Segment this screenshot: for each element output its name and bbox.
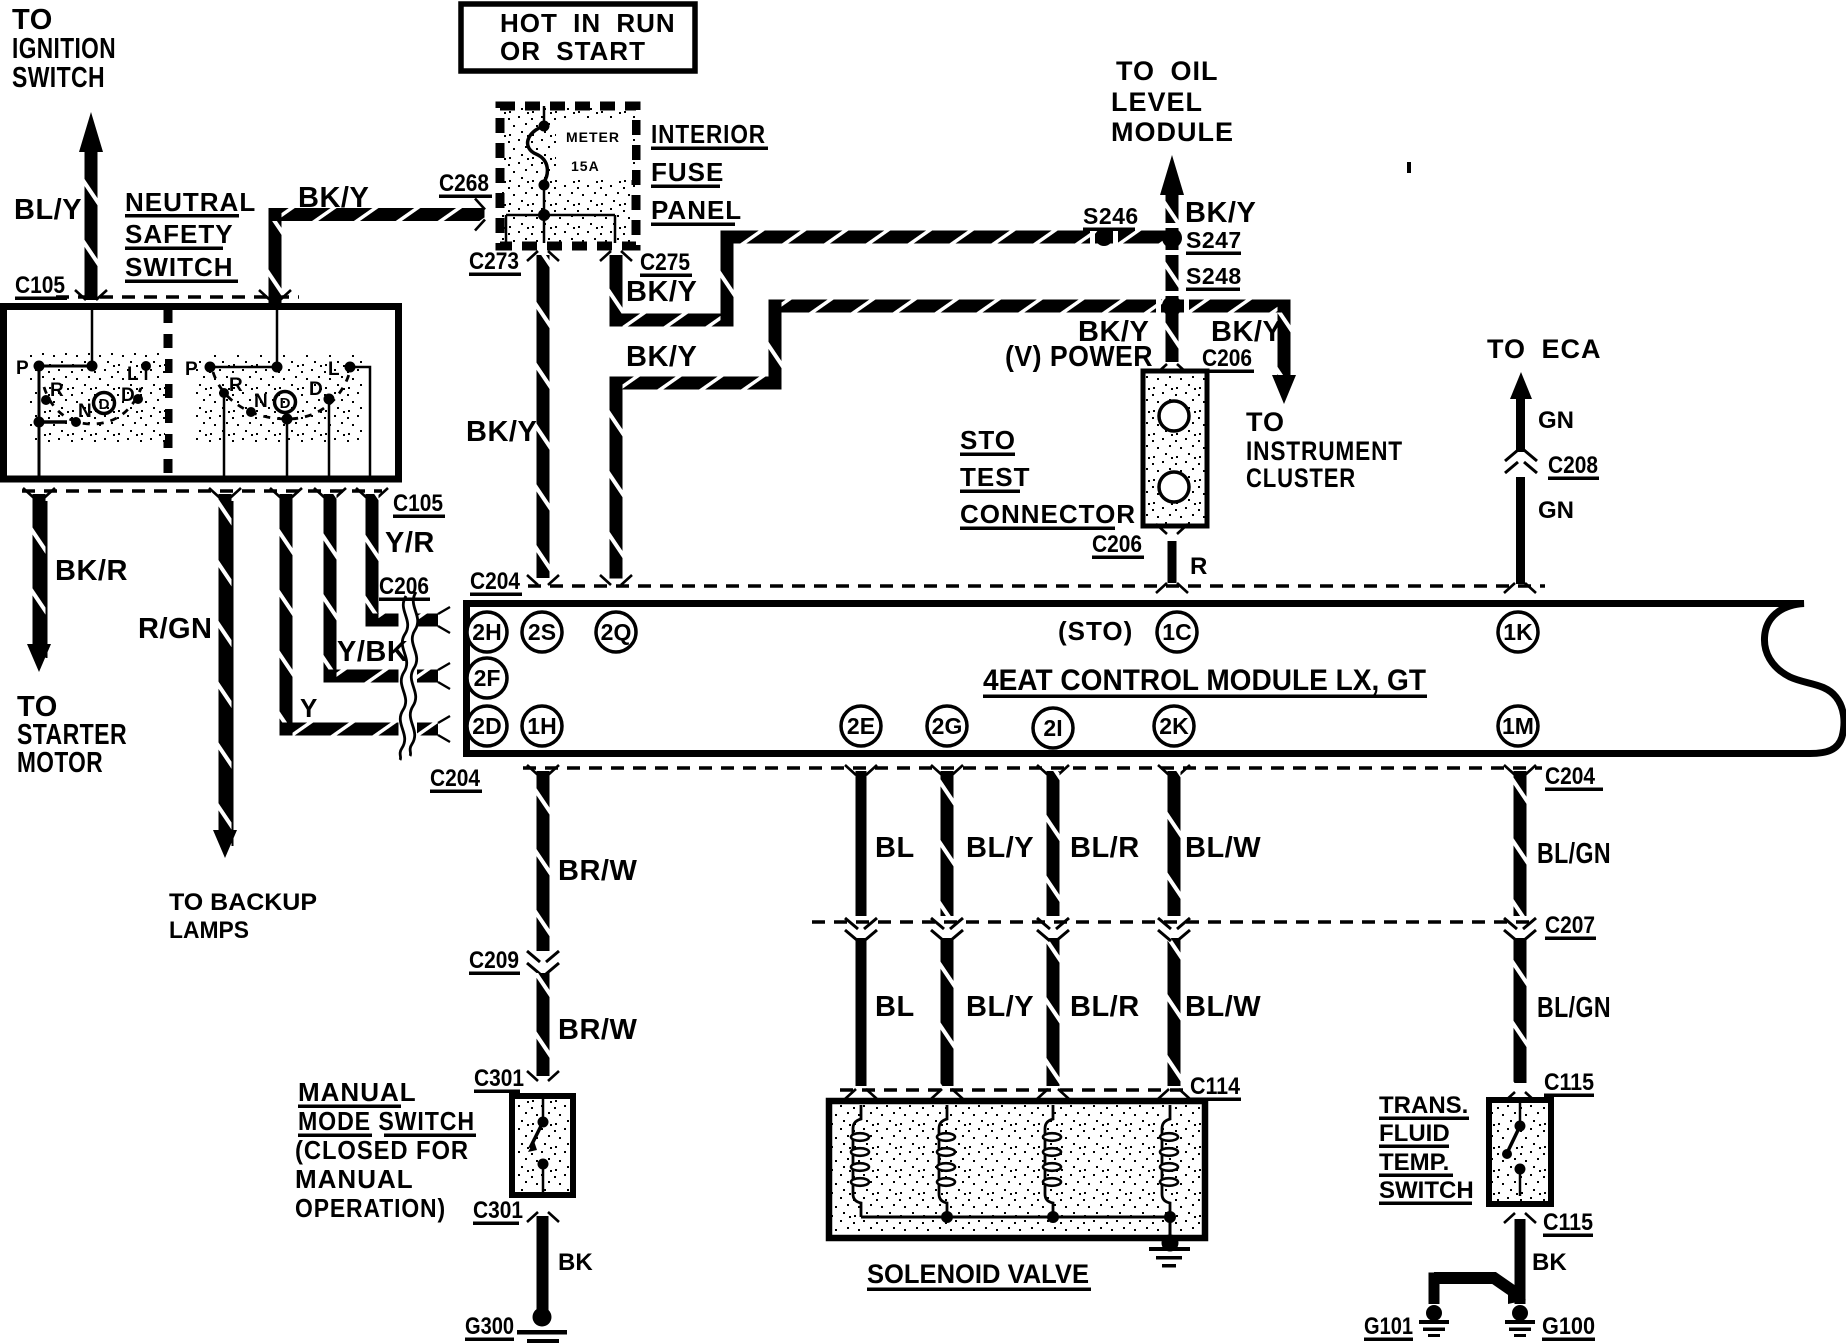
wire BK/R [33, 494, 46, 645]
left half feed line [91, 307, 94, 366]
svg-text:2H: 2H [472, 619, 501, 645]
solenoid common bus [861, 1216, 1170, 1219]
wire BK/Y vertical through S247 S248 [1166, 192, 1179, 362]
wire BL/R lower [1047, 938, 1060, 1086]
arrowhead up to oil level module [1160, 155, 1184, 195]
connector funnel C204 at 2K [1158, 765, 1190, 775]
svg-text:BR/W: BR/W [558, 1014, 637, 1046]
svg-text:2F: 2F [474, 665, 501, 691]
stray tick mark [1407, 162, 1411, 173]
solenoid coil 4 [1162, 1105, 1170, 1217]
connector funnel C204 at 1H [527, 765, 559, 775]
svg-text:S248: S248 [1186, 263, 1242, 289]
module pin 2D [467, 706, 507, 746]
right L leg [350, 367, 370, 479]
svg-text:C114: C114 [1190, 1073, 1241, 1100]
trans switch lower pin [1515, 1164, 1526, 1175]
svg-text:P: P [16, 358, 29, 379]
left contact N [71, 417, 81, 427]
module pin 2E [841, 706, 881, 746]
wire Y/BK stub to 2F [417, 670, 438, 683]
module pin 2Q [596, 612, 636, 652]
right R leg [223, 395, 226, 479]
module pin 1H [522, 706, 562, 746]
wire BK/Y to instrument cluster vertical [1278, 300, 1291, 380]
svg-text:2D: 2D [472, 713, 501, 739]
svg-text:C273: C273 [469, 248, 519, 275]
arrowhead up to ECA [1510, 372, 1532, 399]
svg-text:SWITCH: SWITCH [125, 252, 234, 282]
svg-text:D: D [280, 395, 291, 412]
connector funnel C301 upper [527, 1071, 559, 1081]
wire BL/GN lower [1514, 938, 1527, 1083]
module pin 2G [927, 706, 967, 746]
svg-text:C301: C301 [473, 1197, 523, 1224]
STO pin hole lower [1159, 472, 1189, 502]
svg-text:2K: 2K [1159, 713, 1189, 739]
svg-text:C206: C206 [1092, 531, 1142, 558]
left rotor D circled [94, 393, 115, 414]
svg-text:TO: TO [12, 4, 53, 36]
svg-text:SWITCH: SWITCH [1379, 1177, 1474, 1204]
svg-text:BL/Y: BL/Y [966, 991, 1034, 1023]
right node junction [272, 362, 283, 373]
wire Y stub to 2D [417, 723, 438, 736]
svg-text:BL/W: BL/W [1185, 991, 1261, 1023]
left selector arc dashed [44, 387, 141, 424]
connector funnel C275 below fuse panel [600, 251, 632, 261]
svg-text:MODE SWITCH: MODE SWITCH [298, 1106, 475, 1136]
stipple patch left half [30, 350, 165, 442]
connector funnel C204 at 2E [845, 765, 877, 775]
connector funnel C204 at 1M [1504, 765, 1536, 775]
svg-text:METER: METER [566, 129, 620, 145]
svg-text:BR/W: BR/W [558, 855, 637, 887]
wire R/GN [219, 494, 232, 833]
wire BL upper [856, 771, 867, 916]
module pin 2H [467, 612, 507, 652]
svg-text:2E: 2E [847, 713, 875, 739]
svg-text:C204: C204 [470, 568, 521, 595]
svg-text:BK: BK [558, 1249, 593, 1276]
connector funnel C115 lower [1504, 1213, 1536, 1223]
connector funnel C204 at 2G [931, 765, 963, 775]
svg-text:C209: C209 [469, 947, 519, 974]
svg-text:SAFETY: SAFETY [125, 219, 234, 249]
svg-text:G101: G101 [1364, 1313, 1413, 1340]
wire BR/W upper [537, 771, 550, 951]
wire Y vertical [280, 494, 293, 736]
svg-text:INTERIOR: INTERIOR [651, 119, 766, 149]
svg-text:Y: Y [300, 693, 318, 723]
connector funnel C204 at 1K [1504, 583, 1536, 593]
connector funnel C301 lower [527, 1212, 559, 1222]
svg-text:R: R [229, 375, 243, 396]
svg-text:CONNECTOR: CONNECTOR [960, 499, 1136, 529]
splice S246 [1090, 229, 1095, 244]
svg-text:S246: S246 [1083, 203, 1139, 229]
connector funnel C105 at R/GN [209, 488, 241, 498]
manual mode switch box [512, 1096, 573, 1195]
svg-text:BK/Y: BK/Y [1185, 197, 1256, 229]
svg-text:FLUID: FLUID [1379, 1120, 1450, 1147]
connector line C204 top dashed [528, 584, 1545, 588]
connector funnel C114 at BL/W [1158, 1089, 1190, 1099]
svg-text:BK: BK [1532, 1249, 1567, 1276]
svg-text:2G: 2G [932, 713, 963, 739]
arrowhead down instrument cluster [1272, 375, 1296, 404]
left contact P [34, 361, 45, 372]
connector funnel C204 at 2S [527, 575, 559, 585]
svg-text:Y/BK: Y/BK [337, 636, 408, 668]
svg-text:C206: C206 [379, 573, 429, 600]
svg-text:BL/R: BL/R [1070, 991, 1140, 1023]
wire BL/GN upper [1514, 771, 1527, 916]
svg-text:STO: STO [960, 425, 1016, 455]
svg-text:S247: S247 [1186, 227, 1242, 253]
svg-text:C115: C115 [1544, 1069, 1594, 1096]
svg-text:TO BACKUP: TO BACKUP [169, 889, 317, 916]
svg-text:TO: TO [1246, 407, 1285, 437]
svg-text:BL/Y: BL/Y [14, 194, 82, 226]
svg-text:Y/R: Y/R [385, 527, 435, 559]
arrowhead down starter motor [27, 644, 51, 672]
wire BR/W lower [537, 973, 550, 1076]
svg-text:L: L [328, 359, 340, 380]
ground G300 [533, 1308, 552, 1327]
svg-text:BL/W: BL/W [1185, 832, 1261, 864]
connector C207 break at BL [845, 918, 877, 941]
bus junction dot 2 [941, 1211, 953, 1223]
manual switch lower pin [538, 1159, 549, 1170]
wire BK/Y vertical down to module 2Q [610, 377, 623, 579]
connector funnel C114 at BL/R [1037, 1089, 1069, 1099]
svg-text:MODULE: MODULE [1111, 117, 1234, 147]
wire BL/R upper [1047, 771, 1060, 916]
module pin 2F [467, 658, 507, 698]
svg-text:1H: 1H [527, 713, 556, 739]
connector line C105 bottom dashed [22, 489, 382, 493]
connector funnel C105 at BK/R [23, 488, 55, 498]
right D leg [328, 401, 331, 479]
connector C207 break at BL/GN [1504, 918, 1536, 941]
svg-text:C204: C204 [1545, 763, 1596, 790]
neutral safety switch box [4, 307, 399, 480]
connector line C204 bottom dashed [523, 766, 1542, 770]
svg-text:BK/Y: BK/Y [626, 276, 697, 308]
svg-text:R: R [1190, 553, 1207, 580]
STO test connector box [1143, 371, 1207, 526]
wire Y/BK horizontal [324, 670, 399, 683]
wire BK/Y S248 run horizontal [769, 300, 1291, 313]
connector funnel C105 at Y [270, 488, 302, 498]
bus junction dot 4 [1164, 1211, 1176, 1223]
connector funnel C105 at BK/Y [259, 290, 291, 300]
ground G100 [1512, 1305, 1528, 1321]
svg-text:BL: BL [875, 991, 915, 1023]
connector C206 wavy break chain [400, 596, 408, 760]
connector C208 break [1505, 450, 1537, 473]
svg-text:P: P [185, 359, 198, 380]
wire BK branch to G101 [1434, 1278, 1520, 1296]
svg-text:C105: C105 [15, 272, 65, 299]
bus junction dot 3 [1047, 1211, 1059, 1223]
left node junction [87, 361, 98, 372]
connector funnel C204 at 1C [1156, 583, 1188, 593]
svg-text:TO OIL: TO OIL [1116, 56, 1219, 86]
connector C209 break [527, 951, 559, 974]
4EAT control module box [467, 604, 1845, 754]
wire BK/Y riser S248 to 2Q feed [769, 300, 782, 390]
svg-text:BK/Y: BK/Y [298, 182, 369, 214]
svg-text:N: N [78, 401, 92, 422]
svg-text:C206: C206 [1202, 345, 1252, 372]
svg-text:BK/Y: BK/Y [1211, 316, 1282, 348]
connector line C207 dashed [812, 920, 1532, 924]
svg-text:C275: C275 [640, 249, 690, 276]
svg-text:R/GN: R/GN [138, 613, 213, 645]
manual switch upper pin [542, 1099, 545, 1117]
svg-text:OPERATION): OPERATION) [295, 1193, 446, 1223]
solenoid ground lead [1169, 1217, 1172, 1238]
svg-text:C301: C301 [474, 1065, 524, 1092]
svg-text:C204: C204 [430, 765, 481, 792]
connector funnel C114 at BL [845, 1089, 877, 1099]
svg-text:OR START: OR START [500, 36, 646, 66]
connector funnel C105 at BL/Y [75, 290, 107, 300]
svg-text:C207: C207 [1545, 912, 1595, 939]
svg-text:C105: C105 [393, 490, 443, 517]
wire BL/Y to ignition switch [85, 150, 98, 300]
svg-text:TEMP.: TEMP. [1379, 1149, 1449, 1176]
fuse METER 15A element [543, 106, 546, 122]
wire BK to G300 [537, 1216, 549, 1310]
svg-text:BK/Y: BK/Y [626, 341, 697, 373]
wire BK/Y C275 horizontal to riser [610, 314, 734, 327]
svg-text:TO ECA: TO ECA [1487, 334, 1602, 364]
wire GN lower [1516, 477, 1525, 584]
wire BK/Y from switch to C268 horizontal [269, 208, 485, 221]
box HOT IN RUN OR START [461, 4, 695, 71]
connector C207 break at BL/R [1037, 918, 1069, 941]
manual switch arm [530, 1122, 543, 1148]
connector line C105 top dashed [56, 295, 299, 299]
wire BL/W upper [1168, 771, 1181, 916]
svg-text:2S: 2S [528, 619, 556, 645]
svg-text:BL/GN: BL/GN [1537, 992, 1611, 1024]
svg-text:BL/GN: BL/GN [1537, 838, 1611, 870]
connector funnel C204 at 2I [1037, 765, 1069, 775]
connector C207 break at BL/W [1158, 918, 1190, 941]
arrowhead up ignition [79, 112, 103, 152]
svg-text:R: R [50, 380, 64, 401]
svg-text:D: D [309, 379, 323, 400]
svg-text:FUSE: FUSE [651, 157, 724, 187]
right center contact leg [282, 414, 293, 425]
left contact L [141, 361, 151, 371]
wire Y/R horizontal [366, 614, 399, 627]
connector funnel C115 upper [1504, 1092, 1536, 1102]
svg-text:SWITCH: SWITCH [12, 62, 105, 94]
svg-text:LAMPS: LAMPS [169, 917, 249, 944]
svg-text:C268: C268 [439, 170, 489, 197]
wire BL/Y lower [941, 938, 954, 1086]
svg-text:(CLOSED FOR: (CLOSED FOR [295, 1135, 469, 1165]
solenoid coil 1 [853, 1105, 861, 1217]
svg-text:D: D [99, 396, 110, 413]
svg-text:2Q: 2Q [601, 619, 632, 645]
svg-text:NEUTRAL: NEUTRAL [125, 187, 256, 217]
connector funnel C204 at 2Q [600, 575, 632, 585]
right selector arc dashed [213, 371, 350, 419]
svg-text:IGNITION: IGNITION [12, 33, 116, 65]
wire BK/Y riser up to top run [721, 231, 734, 327]
arrowhead down backup lamps [213, 830, 237, 858]
solenoid valve box [829, 1101, 1205, 1238]
right contact L [345, 362, 356, 373]
ground at solenoid valve [1162, 1235, 1179, 1252]
connector funnel C206 below STO [1156, 524, 1188, 534]
svg-text:BL/R: BL/R [1070, 832, 1140, 864]
svg-text:HOT IN RUN: HOT IN RUN [500, 8, 676, 38]
svg-text:(STO): (STO) [1058, 616, 1133, 646]
right contact R [219, 388, 229, 398]
svg-text:TRANS.: TRANS. [1379, 1092, 1468, 1119]
stipple patch right half [196, 355, 364, 445]
right half feed line [276, 307, 279, 367]
interior fuse panel box dashed [500, 106, 636, 246]
wire Y/BK vertical [324, 494, 337, 683]
connector line C114 dashed [840, 1088, 1185, 1092]
module pin 2I [1033, 708, 1073, 748]
wire BK/Y C273 vertical to module 2S [537, 255, 550, 578]
wire BL/W lower [1168, 938, 1181, 1086]
module pin 1C [1157, 612, 1197, 652]
module pin 2K [1154, 706, 1194, 746]
wire BL lower [856, 938, 867, 1086]
svg-text:INSTRUMENT: INSTRUMENT [1246, 436, 1403, 466]
trans switch arm [1508, 1126, 1520, 1151]
connector funnel C114 at BL/Y [931, 1089, 963, 1099]
module pin 1K [1498, 612, 1538, 652]
wire Y/R vertical [366, 494, 379, 627]
wire GN upper [1516, 396, 1525, 452]
wire Y/R stub to 2H [417, 614, 438, 627]
connector C207 break at BL/Y [931, 918, 963, 941]
connector funnel C273 below fuse panel [527, 251, 559, 261]
connector funnel C105 at Y/R [356, 488, 388, 498]
wire BK/Y horizontal to 2Q vertical [610, 377, 782, 390]
svg-text:TEST: TEST [960, 462, 1030, 492]
STO pin hole upper [1159, 401, 1189, 431]
svg-text:2I: 2I [1043, 715, 1062, 741]
svg-text:N: N [254, 391, 268, 412]
svg-text:SOLENOID VALVE: SOLENOID VALVE [867, 1259, 1089, 1289]
wire BK/Y from switch to C268 vertical [269, 221, 282, 303]
wire BK to grounds [1515, 1219, 1526, 1304]
module pin 2S [522, 612, 562, 652]
svg-text:BK/R: BK/R [55, 555, 128, 587]
right contact P [205, 362, 216, 373]
right contact D [324, 394, 335, 405]
wire BL/Y upper [941, 771, 954, 916]
left contact R [41, 395, 51, 405]
svg-text:MANUAL: MANUAL [295, 1164, 414, 1194]
svg-text:LEVEL: LEVEL [1111, 87, 1203, 117]
switch divider dashed [164, 309, 173, 476]
svg-text:BL: BL [875, 832, 915, 864]
svg-text:1M: 1M [1502, 713, 1534, 739]
svg-text:MANUAL: MANUAL [298, 1077, 417, 1107]
splice S247 dot [1164, 223, 1179, 228]
svg-text:C208: C208 [1548, 452, 1598, 479]
svg-text:GN: GN [1538, 407, 1574, 434]
svg-text:C115: C115 [1543, 1209, 1593, 1236]
wire R STO to module [1168, 541, 1177, 583]
module pin 1M [1498, 706, 1538, 746]
splice S248 dot [1164, 291, 1179, 296]
svg-text:MOTOR: MOTOR [17, 747, 103, 779]
right rotor D circled [275, 392, 296, 413]
solenoid coil 3 [1045, 1105, 1053, 1217]
svg-text:L: L [127, 364, 139, 385]
left P leg [38, 366, 41, 479]
svg-text:PANEL: PANEL [651, 195, 742, 225]
wire BK/Y C275 vertical [610, 255, 623, 326]
solenoid coil 2 [939, 1105, 947, 1217]
wire Y horizontal [280, 723, 399, 736]
ground G101 [1426, 1305, 1442, 1321]
connector funnel C206 top of STO [1156, 364, 1188, 374]
trans fluid temp switch box [1489, 1100, 1551, 1204]
svg-text:BK/Y: BK/Y [466, 416, 537, 448]
right contact N [246, 407, 256, 417]
svg-text:G300: G300 [465, 1313, 514, 1340]
wire BK/Y top run to S246 S247 [721, 231, 1166, 244]
svg-text:1C: 1C [1162, 619, 1191, 645]
left contact D [133, 394, 143, 404]
svg-text:G100: G100 [1542, 1313, 1595, 1340]
svg-text:BL/Y: BL/Y [966, 832, 1034, 864]
svg-text:15A: 15A [571, 158, 600, 174]
svg-text:4EAT CONTROL MODULE LX, GT: 4EAT CONTROL MODULE LX, GT [983, 664, 1426, 697]
svg-text:1K: 1K [1503, 619, 1533, 645]
connector funnel C105 at Y/BK [314, 488, 346, 498]
svg-text:(V) POWER: (V) POWER [1005, 341, 1153, 373]
connector funnel C268 [475, 199, 485, 231]
trans switch upper pin [1519, 1103, 1522, 1121]
svg-text:GN: GN [1538, 497, 1574, 524]
svg-text:CLUSTER: CLUSTER [1246, 463, 1356, 493]
